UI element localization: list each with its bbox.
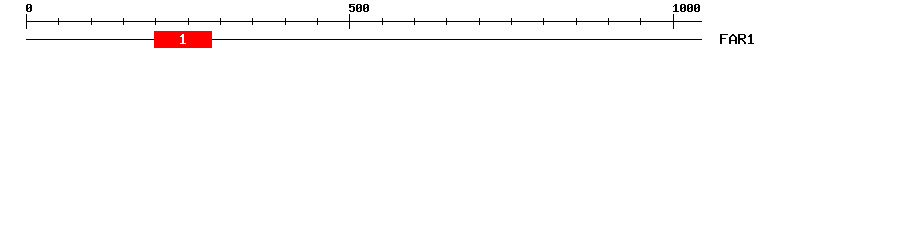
ruler label 0 xyxy=(26,4,32,12)
minor ticks xyxy=(58,18,641,25)
ruler label 1000 xyxy=(673,4,700,12)
major tick 500 xyxy=(349,14,350,29)
ruler label 500 xyxy=(349,4,369,12)
track line xyxy=(26,39,702,40)
feature box label 1 xyxy=(180,34,186,44)
ruler baseline xyxy=(26,21,702,22)
gene name FAR1 xyxy=(720,34,754,44)
major tick 0 xyxy=(26,14,27,29)
feature box (red) xyxy=(154,31,212,48)
background xyxy=(0,0,900,58)
major tick 1000 xyxy=(673,14,674,29)
